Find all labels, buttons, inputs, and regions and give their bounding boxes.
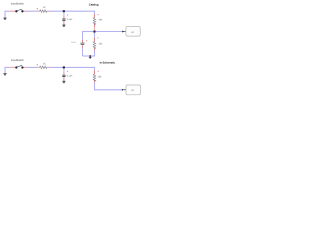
red tick (below mid junction) <box>97 37 98 38</box>
resistor R5 (vertical bottom) <box>93 74 96 81</box>
svg-text:InputSwitch: InputSwitch <box>11 2 24 5</box>
svg-text:10uF: 10uF <box>71 41 76 44</box>
svg-text:In Schematic: In Schematic <box>100 61 115 64</box>
wire right vertical (bottom circuit) <box>94 67 96 90</box>
junction node (mid) <box>93 31 95 33</box>
resistor R3 (vertical lower) <box>93 42 96 49</box>
svg-text:10k: 10k <box>98 19 102 22</box>
ground (top-left) <box>3 18 6 20</box>
wire right vertical (top circuit) <box>94 11 96 31</box>
capacitor C2 branch wires <box>63 68 65 80</box>
red tick (right of bottom corner) <box>98 71 99 72</box>
wire left from mid junction <box>83 31 94 33</box>
port pin arrow (bottom) <box>122 89 124 91</box>
component box (top, catalog part) <box>126 27 140 37</box>
port pin arrow (top) <box>122 31 124 33</box>
capacitor C1 plates <box>62 19 65 20</box>
wire down left branch (to C3) <box>82 31 84 56</box>
red tick near C1 junction <box>67 15 68 16</box>
capacitor C2 plates <box>62 75 65 76</box>
red ref mark (left of R4) <box>37 64 38 65</box>
svg-text:Catalog: Catalog <box>89 3 99 6</box>
wire: top net horizontal <box>5 10 95 12</box>
switch S1 (top) <box>15 9 23 12</box>
ground (below C2) <box>62 81 65 83</box>
resistor R4 (bottom, horizontal) <box>40 66 47 69</box>
wire up to R3 <box>94 33 96 57</box>
resistor R2 (vertical) <box>93 18 96 25</box>
svg-text:1k: 1k <box>43 62 46 65</box>
junction node (bottom wire / C2) <box>63 66 65 68</box>
red tick (right of corner) <box>98 14 99 15</box>
red tick near C2 junction <box>67 71 68 72</box>
svg-text:15k: 15k <box>98 43 102 46</box>
capacitor C1 branch wires <box>63 12 65 24</box>
junction node (top wire / C1) <box>63 10 65 12</box>
svg-text:0.1uF: 0.1uF <box>67 74 73 77</box>
wire left vertical drop <box>4 11 6 18</box>
switch S2 (bottom) <box>15 65 23 68</box>
component box (bottom, schematic part) <box>126 85 141 95</box>
wire from junction to port (top) <box>95 31 122 33</box>
wire from bottom corner to port <box>94 89 122 91</box>
svg-text:LD: LD <box>131 89 134 92</box>
svg-text:InputSwitch: InputSwitch <box>11 59 24 62</box>
wire ground rail <box>83 55 95 57</box>
resistor R1 (top, horizontal) <box>40 10 47 13</box>
ground tap on rail <box>90 55 92 57</box>
svg-text:10k: 10k <box>98 75 102 78</box>
wire: bottom net horizontal <box>5 66 95 68</box>
svg-text:1k: 1k <box>43 6 46 9</box>
ground (below C1) <box>62 25 65 27</box>
svg-text:LD: LD <box>131 31 134 34</box>
wire left vertical drop (bottom) <box>4 67 6 73</box>
svg-text:0.1uF: 0.1uF <box>67 18 73 21</box>
capacitor C3 plates <box>80 43 84 44</box>
red tick (right of C3 top) <box>86 40 87 41</box>
ground (bottom-left) <box>3 74 6 76</box>
red ref mark (left of R1) <box>37 8 38 9</box>
